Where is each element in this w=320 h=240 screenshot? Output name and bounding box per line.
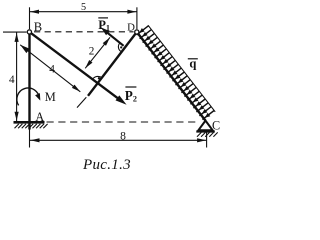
svg-text:2: 2 [89,45,95,57]
force P2 arrowhead [116,95,127,104]
svg-text:M: M [45,90,56,104]
dimension 4 vertical line [16,32,18,121]
dimension 8 extension line below A [29,128,31,148]
support A ground hatching [15,124,48,128]
svg-text:B: B [34,20,42,34]
svg-text:4: 4 [9,74,15,86]
support C triangle [198,121,212,131]
svg-text:8: 8 [120,130,126,143]
svg-text:P1: P1 [98,18,110,32]
dimension 8 extension line below C [206,133,208,148]
support A ground bar [14,121,45,124]
moment M arrowhead [35,93,40,101]
right-angle mark at P1 application point [118,43,120,51]
dimension 4 extension line left of B [3,31,27,33]
hinge B circle [27,30,31,34]
dimension 5 line [30,11,137,13]
member E-D rod [88,32,137,96]
svg-text:D: D [127,22,135,34]
label q overbar [188,58,198,60]
dimension 4 diagonal end tick at E [77,97,86,107]
svg-text:q: q [189,57,196,71]
distributed load q arrows [137,26,215,120]
hinge D circle [135,30,139,34]
svg-text:5: 5 [81,2,86,13]
support C ground hatching [197,132,218,136]
label P1 overbar [98,17,108,19]
svg-text:C: C [212,118,220,132]
force P1 arrow [106,32,123,46]
wire dashed line A-C [47,121,197,123]
support C ground bar [196,130,215,132]
moment M arc [17,88,40,105]
dimension 8 line [30,139,206,141]
member B-X rod with force P2 along it [29,32,119,100]
dimension 5 extension line above D [136,7,138,29]
dimension 2 line [85,37,110,68]
right-angle mark at crossing point [93,76,103,79]
dimension 5 extension line above B [29,7,31,29]
wire dashed line B-D [34,31,134,33]
distributed load q envelope line [148,25,215,112]
member AB vertical rod [28,31,30,130]
svg-text:4: 4 [49,64,55,76]
svg-text:A: A [35,110,44,124]
svg-text:P2: P2 [125,88,137,104]
label P2 overbar [125,86,136,88]
dimension 4 diagonal line [20,45,80,92]
svg-text:Рис.1.3: Рис.1.3 [82,157,131,173]
member D-C rod [137,32,206,121]
